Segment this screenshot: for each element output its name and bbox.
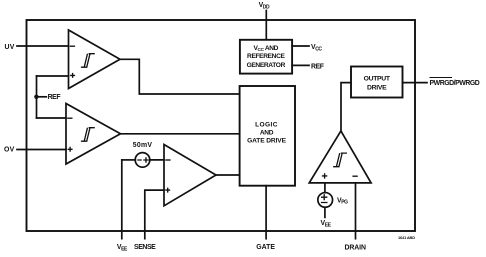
wire OV input pin xyxy=(17,149,66,151)
svg-text:LOGIC: LOGIC xyxy=(255,121,278,128)
wire VPG source top lead xyxy=(324,183,326,193)
wire sense comparator output to logic xyxy=(216,174,239,176)
plus OV comparator xyxy=(68,147,73,152)
svg-text:PWRGD/PWRGD: PWRGD/PWRGD xyxy=(430,80,480,87)
wire VEE pin vertical xyxy=(121,160,123,239)
svg-text:OUTPUT: OUTPUT xyxy=(364,75,391,82)
svg-text:VCC: VCC xyxy=(311,44,322,52)
svg-text:OV: OV xyxy=(4,147,15,154)
voltage source 50mV circle xyxy=(135,153,150,168)
wire REF label stub xyxy=(36,96,46,98)
wire OV comparator output to logic xyxy=(121,133,240,135)
wire DRAIN pin vertical xyxy=(355,183,357,239)
wire VCC output stub xyxy=(292,45,309,47)
wire GATE pin vertical xyxy=(265,186,267,239)
hysteresis symbol PG comparator xyxy=(333,153,347,167)
minus PG comparator xyxy=(352,175,357,177)
block LOGIC AND GATE DRIVE xyxy=(240,86,295,186)
svg-text:GATE DRIVE: GATE DRIVE xyxy=(247,137,287,144)
block text OUTPUT DRIVE xyxy=(364,75,391,91)
plus UV comparator xyxy=(70,73,75,78)
block VCC AND REFERENCE GENERATOR xyxy=(240,40,292,74)
node REF dot xyxy=(34,95,38,99)
block OUTPUT DRIVE xyxy=(351,67,403,98)
plus PG comparator xyxy=(322,173,327,178)
svg-text:VPG: VPG xyxy=(337,197,348,205)
hysteresis symbol OV comparator xyxy=(81,128,95,142)
op-amp UV comparator xyxy=(69,30,121,89)
svg-text:DRAIN: DRAIN xyxy=(345,244,366,251)
wire SENSE plus input xyxy=(145,190,164,239)
wire OV comparator minus input xyxy=(37,117,67,119)
minus OV comparator xyxy=(67,117,72,119)
svg-text:DRIVE: DRIVE xyxy=(367,85,387,92)
op-amp power good comparator xyxy=(309,131,371,183)
block text LOGIC AND GATE DRIVE xyxy=(247,121,287,144)
wire UV input pin xyxy=(17,45,69,47)
wire VPG source bottom lead xyxy=(324,207,326,217)
wire 50mV source left lead xyxy=(122,159,136,161)
svg-text:VCC AND: VCC AND xyxy=(253,45,278,52)
voltage source VPG circle xyxy=(318,193,333,208)
svg-text:UV: UV xyxy=(5,44,15,51)
minus sense comparator xyxy=(165,159,170,161)
wire REF output stub xyxy=(292,64,309,66)
wire UV comparator output to logic xyxy=(120,59,239,94)
svg-text:VDD: VDD xyxy=(259,2,270,10)
wire UV comparator plus input xyxy=(37,75,69,77)
svg-text:SENSE: SENSE xyxy=(134,244,156,251)
svg-text:VEE: VEE xyxy=(117,244,128,252)
svg-text:1641 ABD: 1641 ABD xyxy=(398,235,415,240)
svg-text:REF: REF xyxy=(48,94,61,101)
op-amp current sense comparator xyxy=(164,145,216,206)
svg-text:GATE: GATE xyxy=(256,244,275,251)
block text VCC AND REFERENCE GENERATOR xyxy=(247,45,286,69)
minus UV comparator xyxy=(70,45,75,47)
op-amp OV comparator xyxy=(66,104,121,165)
minus-plus inside 50mV source xyxy=(137,157,148,162)
plus sense comparator xyxy=(165,188,170,193)
svg-text:REFERENCE: REFERENCE xyxy=(247,53,285,60)
hysteresis symbol UV comparator xyxy=(81,54,95,68)
wire VDD pin xyxy=(265,11,267,40)
wire 50mV source right lead to minus input xyxy=(150,159,164,161)
svg-text:VEE: VEE xyxy=(321,220,332,229)
svg-text:GENERATOR: GENERATOR xyxy=(247,62,286,69)
wire REF vertical net xyxy=(36,76,38,118)
overline on PWRGD xyxy=(430,77,453,79)
svg-text:50mV: 50mV xyxy=(133,142,153,149)
wire PG comparator output to output drive xyxy=(341,83,351,131)
svg-text:REF: REF xyxy=(311,64,324,71)
outer IC boundary box xyxy=(27,20,416,231)
plus-minus marks of comparators xyxy=(67,46,358,202)
wire PWRGD output pin xyxy=(403,82,428,84)
plus-minus inside VPG source xyxy=(321,194,328,202)
svg-text:AND: AND xyxy=(260,129,274,136)
